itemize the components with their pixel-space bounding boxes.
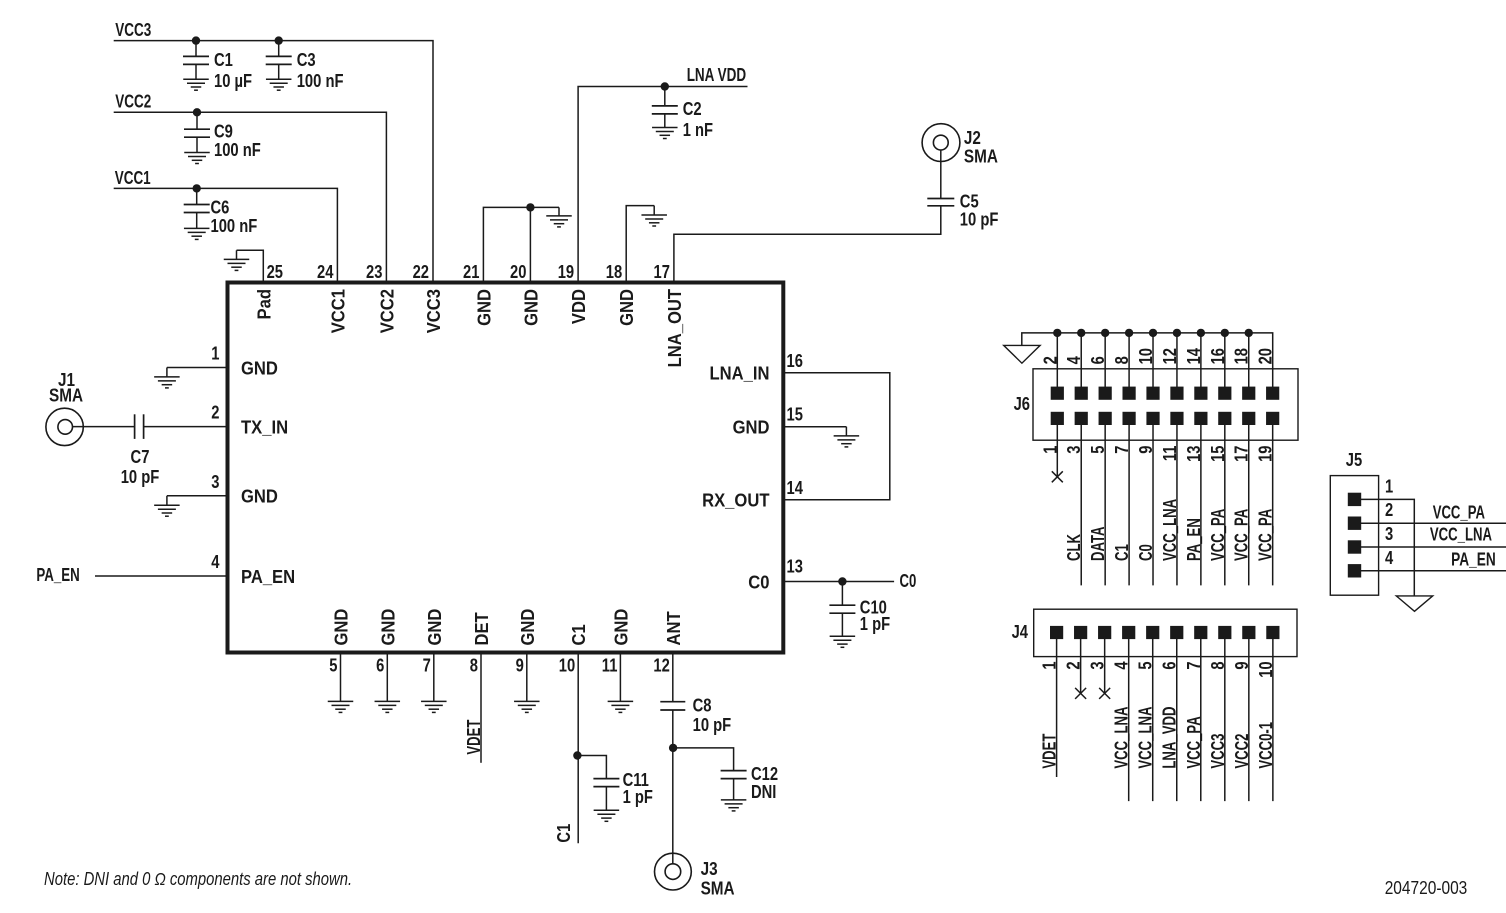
svg-text:RX_OUT: RX_OUT (702, 491, 769, 511)
svg-text:GND: GND (241, 358, 278, 378)
J4 pad pin 5 (1147, 626, 1159, 638)
svg-text:25: 25 (267, 262, 283, 282)
svg-text:GND: GND (332, 609, 352, 646)
svg-text:10 pF: 10 pF (693, 715, 732, 735)
svg-text:C8: C8 (693, 696, 712, 716)
wire J4 pin 3 stub (1104, 639, 1106, 694)
svg-text:VCC2: VCC2 (115, 91, 151, 111)
junction node VCC3/C1 (192, 37, 199, 44)
ground (bottom pin) (608, 701, 634, 712)
J4 pad pin 1 (1051, 626, 1063, 638)
svg-text:C0: C0 (900, 571, 917, 591)
wire J6 ground bus (1022, 333, 1273, 387)
svg-text:12: 12 (653, 655, 669, 675)
wire C2 lower lead (664, 114, 666, 128)
svg-text:GND: GND (474, 289, 494, 326)
svg-text:C7: C7 (131, 447, 150, 467)
wire J4 pin 2 stub (1080, 639, 1082, 694)
no-connect X (J4 pin 3) (1099, 688, 1110, 699)
junction node J6 bus 16 (1221, 329, 1228, 336)
wire J6 pin 18 to bus (1248, 333, 1250, 387)
svg-text:100 nF: 100 nF (214, 140, 261, 160)
svg-text:J3: J3 (701, 859, 718, 879)
ground (pin 18) (641, 206, 667, 226)
svg-text:VDET: VDET (1040, 734, 1060, 769)
svg-text:SMA: SMA (49, 386, 83, 406)
junction node VCC3/C3 (275, 37, 282, 44)
ground triangle (J6) (1004, 345, 1040, 363)
svg-text:19: 19 (558, 262, 574, 282)
capacitor C11 (593, 779, 619, 787)
junction node C0/C10 (839, 578, 846, 585)
connector J6 header 2x10 (1033, 369, 1298, 440)
svg-text:204720-003: 204720-003 (1385, 878, 1468, 898)
svg-text:4: 4 (1064, 356, 1084, 364)
svg-text:GND: GND (611, 609, 631, 646)
J6 pad pin 7 (1123, 412, 1135, 424)
svg-text:16: 16 (1208, 348, 1228, 364)
wire C9 lower lead (196, 137, 198, 152)
ground (pins 20/21) (546, 207, 572, 227)
J4 pad pin 3 (1099, 626, 1111, 638)
IC body U1 (25-pin RF front-end block) (228, 283, 784, 653)
J6 pad pin 6 (1099, 387, 1111, 399)
wire C10 lower lead (841, 613, 843, 636)
svg-text:VCC0-1: VCC0-1 (1256, 722, 1276, 769)
svg-text:GND: GND (617, 289, 637, 326)
svg-text:11: 11 (602, 655, 618, 675)
connector J4 header 1x10 (1034, 609, 1297, 656)
wire J6 pin 16 to bus (1224, 333, 1226, 387)
svg-text:PA_EN: PA_EN (36, 565, 79, 585)
svg-text:J6: J6 (1014, 394, 1030, 414)
wire J6 pin 11 (1176, 425, 1178, 586)
wire pin 20 stub (529, 207, 531, 282)
wire C3 lead (278, 41, 280, 57)
J6 pad pin 12 (1171, 387, 1183, 399)
svg-text:10 µF: 10 µF (214, 71, 252, 91)
svg-text:C2: C2 (683, 99, 702, 119)
svg-text:VCC3: VCC3 (424, 289, 444, 333)
svg-text:13: 13 (787, 557, 803, 577)
J6 pad pin 13 (1195, 412, 1207, 424)
wire J6 pin 5 (1104, 425, 1106, 586)
wire PA_EN to pin 4 (95, 575, 228, 577)
svg-text:C6: C6 (211, 198, 230, 218)
wire J5 pin 2 VCC_PA (1361, 522, 1506, 524)
svg-text:10: 10 (559, 655, 575, 675)
wire branch to C11 (577, 756, 606, 779)
J6 pad pin 14 (1195, 387, 1207, 399)
svg-text:GND: GND (518, 609, 538, 646)
svg-text:PA_EN: PA_EN (1451, 549, 1496, 569)
svg-text:VCC1: VCC1 (115, 168, 151, 188)
connector J1 SMA (46, 408, 83, 445)
ground (C2) (652, 128, 678, 139)
junction node J6 bus 10 (1149, 329, 1156, 336)
svg-text:VDD: VDD (569, 289, 589, 324)
wire J4 pin 8 (1224, 639, 1226, 802)
svg-text:VCC3: VCC3 (115, 20, 151, 40)
svg-text:22: 22 (413, 262, 429, 282)
wire J6 pin 2 to bus (1056, 333, 1058, 387)
capacitor C8 (series) (660, 702, 685, 710)
wire C1 lower lead (195, 64, 197, 79)
capacitor C1 (183, 56, 209, 64)
ground (pin 15) (834, 427, 860, 447)
J6 pad pin 3 (1075, 412, 1087, 424)
svg-text:C1: C1 (554, 824, 574, 843)
svg-text:9: 9 (516, 655, 524, 675)
ground (bottom pin) (375, 701, 401, 712)
capacitor C12 (721, 771, 747, 779)
J6 pad pin 4 (1075, 387, 1087, 399)
J4 pad pin 2 (1075, 626, 1087, 638)
wire J4 pin 6 (1176, 639, 1178, 802)
wire C6 lead (196, 188, 198, 204)
connector J2 SMA (922, 124, 960, 162)
wire pin 8 DET to VDET (480, 653, 482, 763)
svg-text:DET: DET (472, 612, 492, 645)
ground (pin 25) (224, 250, 250, 270)
svg-text:12: 12 (1160, 348, 1180, 364)
wire pin 3 to ground (167, 495, 228, 497)
svg-text:100 nF: 100 nF (211, 216, 258, 236)
wire J4 pin 9 (1248, 639, 1250, 802)
ground (C12) (721, 800, 747, 811)
wire pin to ground (x=387.3) (386, 653, 388, 702)
svg-text:VCC_PA: VCC_PA (1433, 503, 1485, 523)
capacitor C3 (266, 56, 292, 64)
svg-text:LNA VDD: LNA VDD (687, 65, 747, 85)
ground (bottom pin) (421, 701, 447, 712)
svg-text:3: 3 (1385, 524, 1393, 544)
junction node J6 bus 8 (1125, 329, 1132, 336)
junction node J6 bus 6 (1101, 329, 1108, 336)
connector J3 SMA (655, 853, 692, 890)
wire C6 lower lead (196, 213, 198, 229)
junction node J6 bus 18 (1245, 329, 1252, 336)
svg-text:1 nF: 1 nF (683, 120, 713, 140)
svg-text:4: 4 (1385, 548, 1393, 568)
svg-text:C1: C1 (1112, 544, 1132, 561)
J5 pad pin 2 (1348, 517, 1360, 529)
wire pin 25 to ground (237, 250, 264, 282)
svg-text:LNA_OUT: LNA_OUT (665, 289, 685, 367)
svg-text:VCC2: VCC2 (377, 289, 397, 333)
J4 pad pin 8 (1219, 626, 1231, 638)
ground (pin 1) (154, 368, 180, 388)
svg-text:20: 20 (1256, 348, 1276, 364)
wire J4 pin 4 (1128, 639, 1130, 802)
no-connect X (J4 pin 2) (1075, 688, 1086, 699)
wire pin 18 to ground (626, 206, 654, 283)
svg-text:18: 18 (1232, 348, 1252, 364)
svg-text:SMA: SMA (701, 879, 735, 899)
capacitor C2 (652, 106, 678, 114)
wire J6 pin 17 (1248, 425, 1250, 586)
svg-text:1 pF: 1 pF (623, 787, 653, 807)
J4 pad pin 4 (1123, 626, 1135, 638)
wire pin 10 down to C1 net (577, 653, 579, 844)
junction node VCC2/C9 (193, 109, 200, 116)
junction node J6 bus 12 (1173, 329, 1180, 336)
J6 pad pin 9 (1147, 412, 1159, 424)
svg-text:VCC3: VCC3 (1208, 734, 1228, 769)
svg-text:LNA_VDD: LNA_VDD (1160, 707, 1180, 769)
J6 pad pin 8 (1123, 387, 1135, 399)
wire J6 pin 19 (1272, 425, 1274, 586)
svg-text:DATA: DATA (1088, 527, 1108, 562)
wire J4 pin 5 (1152, 639, 1154, 802)
connector J5 header 1x4 (1330, 476, 1378, 596)
J4 pad pin 6 (1171, 626, 1183, 638)
svg-text:100 nF: 100 nF (297, 71, 344, 91)
svg-text:6: 6 (376, 655, 384, 675)
wire J4 pin 7 (1200, 639, 1202, 802)
wire pin to ground (x=340.5) (340, 653, 342, 702)
J6 pad pin 5 (1099, 412, 1111, 424)
svg-text:Pad: Pad (254, 289, 274, 320)
svg-text:PA_EN: PA_EN (241, 567, 295, 587)
svg-text:VCC_LNA: VCC_LNA (1136, 707, 1156, 769)
svg-text:6: 6 (1088, 356, 1108, 364)
junction node J6 bus 4 (1078, 329, 1085, 336)
J6 pad pin 15 (1219, 412, 1231, 424)
svg-text:C12: C12 (751, 764, 778, 784)
J5 pad pin 3 (1348, 541, 1360, 553)
wire J5 pin 4 PA_EN (1361, 570, 1506, 572)
svg-text:CLK: CLK (1064, 534, 1084, 561)
svg-text:VCC_LNA: VCC_LNA (1112, 707, 1132, 769)
wire pin 16 LNA_IN loop to pin 14 RX_OUT (783, 373, 890, 500)
svg-text:VDET: VDET (464, 720, 484, 755)
ground (pin 3) (154, 496, 180, 516)
J6 pad pin 10 (1147, 387, 1159, 399)
svg-text:C1: C1 (214, 50, 233, 70)
svg-text:1: 1 (1385, 476, 1393, 496)
wire J6 pin 9 (1152, 425, 1154, 586)
J6 pad pin 2 (1051, 387, 1063, 399)
svg-text:VCC_PA: VCC_PA (1256, 509, 1276, 561)
svg-text:2: 2 (211, 403, 219, 423)
svg-text:7: 7 (423, 655, 431, 675)
wire C12 lower lead (733, 779, 735, 800)
wire J5 pin 1 to ground (1361, 499, 1415, 596)
wire J4 pin 10 (1272, 639, 1274, 802)
wire J6 pin 15 (1224, 425, 1226, 586)
J6 pad pin 18 (1243, 387, 1255, 399)
ground (bottom pin) (514, 701, 540, 712)
svg-text:GND: GND (241, 487, 278, 507)
no-connect X (J6 pin 1) (1052, 471, 1063, 482)
capacitor C6 (184, 205, 210, 213)
wire pin 12 ANT to C8 (672, 653, 674, 702)
junction node ANT/C12 (669, 744, 676, 751)
svg-text:C3: C3 (297, 50, 316, 70)
svg-text:C5: C5 (960, 192, 979, 212)
svg-text:16: 16 (787, 351, 803, 371)
wire branch to C12 (673, 748, 734, 771)
svg-text:C0: C0 (1136, 544, 1156, 561)
ground triangle (J5) (1396, 596, 1432, 611)
wire C8 to J3 (672, 710, 674, 863)
wire J6 pin 7 (1128, 425, 1130, 586)
ground (C1) (183, 79, 209, 90)
capacitor C9 (184, 129, 210, 137)
svg-text:C0: C0 (748, 572, 769, 592)
svg-text:24: 24 (317, 262, 333, 282)
svg-text:18: 18 (606, 262, 622, 282)
wire pin 15 to ground (783, 426, 846, 428)
svg-text:VCC2: VCC2 (1232, 734, 1252, 769)
wire C3 lower lead (278, 64, 280, 79)
wire J1 to C7 (73, 426, 135, 428)
J5 pad pin 1 (1348, 493, 1360, 505)
junction node J6 bus 2 (1054, 329, 1061, 336)
J6 pad pin 16 (1219, 387, 1231, 399)
ground (bottom pin) (328, 701, 354, 712)
svg-text:GND: GND (521, 289, 541, 326)
wire J6 pin 3 (1080, 425, 1082, 586)
ground (C9) (184, 153, 210, 164)
svg-text:15: 15 (787, 405, 803, 425)
J4 pad pin 9 (1243, 626, 1255, 638)
svg-text:2: 2 (1040, 356, 1060, 364)
svg-text:5: 5 (329, 655, 337, 675)
svg-text:2: 2 (1385, 500, 1393, 520)
capacitor C7 (series) (135, 414, 144, 439)
junction node pins 20/21 (527, 204, 534, 211)
svg-text:4: 4 (211, 552, 219, 572)
svg-text:GND: GND (425, 609, 445, 646)
wire C5 to J2 (940, 150, 942, 199)
svg-text:LNA_IN: LNA_IN (710, 364, 770, 384)
svg-text:J4: J4 (1012, 622, 1028, 642)
svg-text:ANT: ANT (664, 611, 684, 645)
svg-text:Note: DNI and 0 Ω components a: Note: DNI and 0 Ω components are not sho… (44, 869, 352, 889)
wire J4 pin 1 VDET (1056, 639, 1058, 777)
wire J6 pin 10 to bus (1152, 333, 1154, 387)
wire pin to ground (x=620.4) (619, 653, 621, 702)
wire VCC3 rail to pin 22 (114, 41, 433, 283)
svg-text:DNI: DNI (751, 782, 776, 802)
svg-text:VCC_PA: VCC_PA (1208, 509, 1228, 561)
ground (C11) (594, 810, 620, 821)
J4 pad pin 7 (1195, 626, 1207, 638)
wire C1 lead (195, 41, 197, 57)
wire J6 pin 1 stub (1056, 425, 1058, 477)
svg-text:1: 1 (211, 344, 219, 364)
wire C2 lead (664, 87, 666, 106)
svg-text:VCC1: VCC1 (328, 289, 348, 333)
svg-text:PA_EN: PA_EN (1184, 518, 1204, 561)
svg-text:14: 14 (787, 478, 803, 498)
svg-text:VCC_LNA: VCC_LNA (1160, 499, 1180, 561)
svg-text:VCC_PA: VCC_PA (1184, 716, 1204, 768)
svg-text:20: 20 (510, 262, 526, 282)
wire pin 13 to C0 (783, 581, 894, 583)
ground (C3) (266, 79, 292, 90)
capacitor C10 (829, 605, 855, 613)
junction node J6 bus 14 (1197, 329, 1204, 336)
wire pin 1 to ground (167, 367, 228, 369)
junction node VCC1/C6 (193, 185, 200, 192)
ground (C6) (184, 228, 210, 239)
wire C10 lead (841, 582, 843, 606)
wire C9 lead (196, 112, 198, 129)
wire pin to ground (x=526.8) (526, 653, 528, 702)
svg-text:GND: GND (733, 418, 770, 438)
J4 pad pin 10 (1267, 626, 1279, 638)
junction node LNA VDD/C2 (661, 83, 668, 90)
wire J6 pin 4 to bus (1080, 333, 1082, 387)
svg-text:C9: C9 (214, 122, 233, 142)
wire pin 17 LNA_OUT to C5 (674, 206, 941, 283)
J5 pad pin 4 (1348, 565, 1360, 577)
capacitor C5 (927, 199, 954, 206)
svg-text:VCC_PA: VCC_PA (1232, 509, 1252, 561)
svg-text:J5: J5 (1346, 450, 1362, 470)
svg-text:GND: GND (378, 609, 398, 646)
wire C7 to pin 2 (144, 426, 228, 428)
wire VCC1 rail to pin 24 (114, 188, 338, 282)
ground (C10) (830, 636, 856, 647)
wire J6 pin 14 to bus (1200, 333, 1202, 387)
svg-text:TX_IN: TX_IN (241, 417, 288, 437)
J6 pad pin 19 (1267, 412, 1279, 424)
wire pin to ground (x=433.8) (433, 653, 435, 702)
svg-text:10 pF: 10 pF (121, 467, 160, 487)
wire C11 lower lead (605, 787, 607, 811)
J6 pad pin 20 (1267, 387, 1279, 399)
wire J5 pin 3 VCC_LNA (1361, 546, 1506, 548)
wire J6 pin 6 to bus (1104, 333, 1106, 387)
wire VCC2 rail to pin 23 (114, 112, 387, 282)
wire pins 21/20 to ground (483, 207, 559, 282)
svg-text:3: 3 (211, 472, 219, 492)
J6 pad pin 11 (1171, 412, 1183, 424)
wire J6 pin 12 to bus (1176, 333, 1178, 387)
svg-text:J2: J2 (964, 128, 981, 148)
svg-text:10: 10 (1136, 348, 1156, 364)
svg-text:17: 17 (654, 262, 670, 282)
svg-text:SMA: SMA (964, 147, 998, 167)
svg-text:8: 8 (1112, 356, 1132, 364)
svg-text:VCC_LNA: VCC_LNA (1430, 525, 1492, 545)
wire pin 19 VDD to LNA VDD rail (578, 87, 747, 283)
svg-text:8: 8 (470, 655, 478, 675)
wire J6 pin 8 to bus (1128, 333, 1130, 387)
J6 pad pin 1 (1051, 412, 1063, 424)
svg-text:1 pF: 1 pF (860, 614, 890, 634)
svg-text:21: 21 (463, 262, 479, 282)
svg-text:23: 23 (366, 262, 382, 282)
wire J6 pin 13 (1200, 425, 1202, 586)
svg-text:C1: C1 (569, 624, 589, 645)
svg-text:10 pF: 10 pF (960, 210, 999, 230)
J6 pad pin 17 (1243, 412, 1255, 424)
junction node pin10/C11 (574, 752, 581, 759)
svg-text:14: 14 (1184, 348, 1204, 364)
